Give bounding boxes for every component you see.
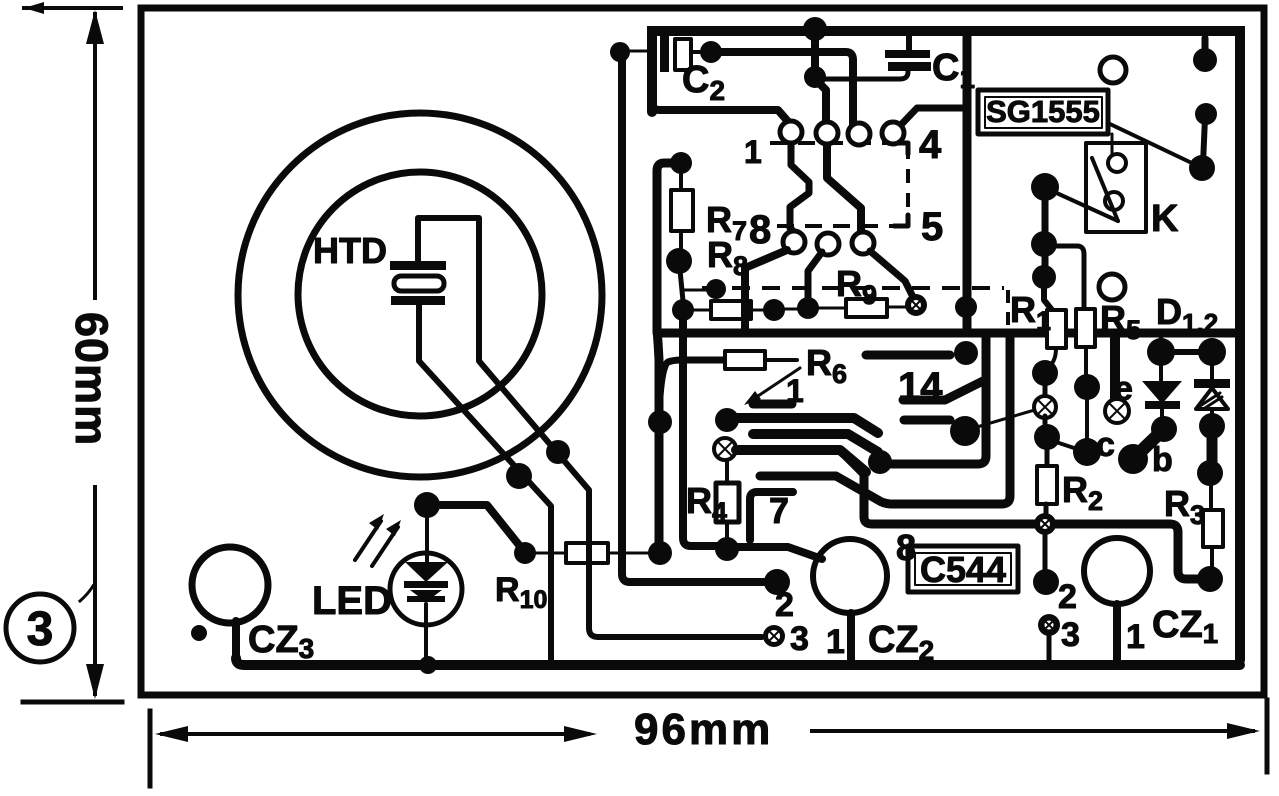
wire stub SG1555 box to contact [1111, 134, 1114, 153]
svg-text:3: 3 [790, 620, 809, 658]
resistor R1 body [1047, 310, 1066, 348]
comb finger pin1 short bar [753, 400, 792, 409]
relay contact hole bottom [1105, 192, 1123, 210]
svg-text:96mm: 96mm [634, 705, 773, 754]
junction dot transistor c [1073, 438, 1101, 466]
dashed box corner bracket bottom-right [894, 215, 908, 226]
junction dot R8 left [672, 299, 694, 321]
small slash tick on dimension line [80, 586, 93, 601]
wire R5 bottom link [1084, 347, 1088, 378]
comb right bar y400 with diagonal up [903, 381, 983, 400]
IC label box SG1555 [978, 90, 1108, 134]
junction dot R10 right [648, 541, 672, 565]
wire R3 top link [1209, 480, 1213, 510]
connector pad CZ2 [813, 539, 887, 613]
wire stub to dashed-line dot [684, 289, 707, 292]
dimension arrow 60mm lower (pointing down) [93, 487, 97, 694]
junction dot y462 [868, 450, 892, 474]
connector pad CZ1 [1084, 538, 1150, 604]
wire link R2-dot to c-dot [1053, 441, 1077, 449]
svg-text:K: K [1151, 198, 1179, 240]
svg-text:1: 1 [744, 134, 762, 170]
pin hole 4 [882, 122, 904, 144]
wire LED anode to R10 [427, 505, 523, 550]
svg-text:4: 4 [919, 123, 942, 167]
wire R3 bottom link [1210, 547, 1214, 570]
wire C2 left link [620, 50, 650, 53]
svg-text:3: 3 [27, 603, 54, 656]
junction dot below R7 [666, 248, 692, 274]
svg-text:1: 1 [1126, 618, 1145, 656]
relay contact hole top [1108, 154, 1126, 172]
piezo transducer HTD inner circle [298, 172, 542, 416]
pad transistor e with cross [1105, 399, 1129, 423]
junction dot D2 top [1198, 338, 1226, 366]
dimension tick bottom (left end of 96mm) [148, 711, 153, 786]
junction dot above R1 [1032, 265, 1056, 289]
svg-text:8: 8 [749, 208, 771, 252]
junction dot LED cathode on ground [419, 656, 437, 674]
IC SG1555 dashed outline bottom [772, 224, 906, 228]
wire pin 4 to right vertical [896, 108, 962, 130]
junction dot relay arm top [1195, 103, 1217, 125]
mounting hole top [1100, 57, 1126, 83]
wire bus to CZ2 [738, 547, 822, 559]
wire thick strap D2 down [1207, 426, 1218, 473]
wire vertical from C2-left dot down to pad 2 row [622, 60, 768, 582]
wire R2 bottom link [1044, 504, 1049, 516]
junction dot on top ring [803, 17, 827, 41]
wire to cross pad [1043, 380, 1048, 398]
junction dot left end of dashed line [706, 279, 726, 299]
wire HTD top lead to pad 3 [418, 218, 762, 637]
comb right bar y464 to x986 vertical [890, 338, 986, 464]
comb finger bar y434 [753, 434, 878, 452]
LED outline circle [390, 553, 462, 625]
HTD element disc [394, 276, 444, 291]
junction dot top of R7 column [670, 152, 692, 174]
junction dot LED anode trace [414, 492, 440, 518]
junction dot CZ1 pin 2 [1033, 569, 1059, 595]
HTD element top plate [390, 261, 446, 270]
junction dot D1 cathode [1151, 416, 1177, 442]
wire R8 right link [751, 309, 766, 312]
pad 3 with cross (CZ2 pin3) [763, 625, 785, 647]
wire R4 top link [725, 460, 729, 483]
resistor R2 body [1037, 466, 1057, 504]
diode D2 triangle outline [1196, 388, 1228, 409]
junction dot above R2 [1034, 424, 1060, 450]
junction dot transistor b [1118, 444, 1148, 474]
wire pin7 hole diagonal to R9 right [870, 251, 914, 299]
junction dot at R10 left [514, 542, 536, 564]
junction dot D2 cathode [1199, 413, 1225, 439]
diode D2 lower link [1210, 409, 1214, 419]
wire C1 bottom to junction [824, 71, 908, 79]
dimension tick bottom (right end of 96mm) [1265, 700, 1270, 772]
pad R4 top with cross [714, 438, 736, 460]
wire R6 right stub [765, 358, 797, 362]
wire HTD bottom lead to ground [419, 305, 551, 662]
junction dot on left vertical [648, 410, 672, 434]
wire R1 bottom link [1048, 348, 1056, 367]
LED emission arrow 1 [355, 521, 381, 560]
junction dot on x967 vertical [955, 296, 977, 318]
svg-text:8: 8 [896, 527, 916, 568]
wire R2 top link [1045, 444, 1050, 466]
wire coil vertical chain [1042, 187, 1049, 277]
svg-text:c: c [1096, 426, 1115, 464]
wire R10 right link [608, 552, 654, 555]
wire right vertical x967 from ring to R8 bus [963, 37, 972, 330]
comb right bar y420 [904, 416, 950, 425]
wire pad to dot [1043, 416, 1048, 430]
dimension tick bottom-left [23, 700, 122, 705]
wire R6 left elbow from vertical [659, 360, 725, 414]
junction dot on top lead [546, 440, 570, 464]
junction dot on bottom lead [506, 463, 532, 489]
junction dot above R3 [1197, 460, 1223, 486]
wire pin3 stub to ground [1047, 634, 1052, 660]
IC SG1555 dashed outline right [906, 145, 910, 224]
wire thin from K arm to coil dot [1050, 190, 1118, 221]
svg-text:14: 14 [898, 365, 943, 409]
dimension tick top-left [24, 6, 121, 10]
wire LED cathode [424, 604, 428, 660]
svg-text:60mm: 60mm [66, 312, 117, 446]
comb right bar y355 [866, 351, 950, 360]
wire loop from ring to pin 1 [652, 104, 791, 125]
capacitor C1 plate 2 [888, 62, 931, 71]
wire LED anode [425, 512, 429, 566]
wire pin 7 elbow [750, 492, 793, 540]
wire link to R9 [818, 307, 846, 310]
resistor R5 body [1076, 309, 1095, 347]
dimension line 96mm left segment [162, 732, 588, 736]
diode D2 cathode bar [1194, 379, 1230, 388]
junction dot relay arm bottom [1189, 155, 1215, 181]
svg-text:e: e [1114, 370, 1133, 408]
svg-text:2: 2 [1058, 578, 1077, 616]
wire bar between D1 and D2 dots [1161, 349, 1212, 355]
resistor R9 body [846, 299, 887, 317]
diode D1 lower link [1160, 409, 1164, 421]
junction dot D1 anode [1147, 338, 1175, 366]
pin hole 6 [817, 233, 839, 255]
wire zigzag pin1 to pin5 hole [790, 144, 809, 232]
wire R7 bottom link [679, 231, 683, 252]
wire down to c dot [1085, 394, 1089, 442]
diode D1 link [1159, 352, 1163, 381]
svg-text:b: b [1152, 441, 1173, 479]
junction dot coil top [1031, 173, 1059, 201]
wire pin5 hole diagonal to R8 column [745, 250, 787, 330]
wire zigzag pin2 to pin7 hole [827, 144, 861, 232]
comb finger bar y476 [760, 338, 1010, 504]
HTD element bottom plate [391, 296, 445, 305]
comb finger bar y450 from R4 pad [736, 450, 866, 472]
wire top supply ring (top and right side) [652, 31, 1240, 660]
wire branch e from bus y333 [1110, 338, 1120, 399]
junction pad with cross x1045 [1034, 396, 1056, 418]
resistor R7 body [671, 190, 693, 231]
diode D2 link [1210, 352, 1214, 380]
wire elbow to R5 [1050, 246, 1084, 309]
capacitor C2 plate 2 [675, 39, 691, 70]
junction dot below R5 [1074, 374, 1100, 400]
wire bus y525 from comb to R3 pad [842, 452, 1198, 579]
junction dot below R4 [715, 537, 739, 561]
dimension arrow 60mm upper (pointing up) [93, 14, 97, 298]
wire x742 vertical crossing R8 [741, 296, 749, 330]
capacitor C2 plate 1 [660, 36, 669, 72]
dimension line 96mm right segment [812, 729, 1253, 733]
IC label box C544 [908, 546, 1018, 592]
wire HTD lead crossing R10 body [586, 540, 592, 566]
capacitor C1 plate 1 [885, 50, 930, 58]
svg-text:LED: LED [312, 579, 392, 623]
dashed box corner bracket top-right [894, 143, 908, 154]
relay switch arm [1092, 158, 1118, 221]
wire pad to pin2 dot [1043, 532, 1048, 572]
svg-text:HTD: HTD [313, 230, 387, 271]
LED symbol bar [404, 581, 448, 588]
junction dot big y431 [950, 416, 980, 446]
wire CZ1 pin stub [1113, 604, 1121, 662]
wire left vertical continues to R10 junction [657, 330, 660, 553]
svg-text:7: 7 [769, 490, 789, 531]
wire elbow R7-column to left vertical [657, 163, 679, 330]
junction dot C2 left [610, 42, 630, 62]
svg-text:2: 2 [775, 586, 794, 624]
diode D1 triangle [1142, 381, 1182, 404]
junction dot below ring top right [1193, 48, 1217, 72]
junction dot mid chain [1031, 231, 1057, 257]
connector pad CZ3 [192, 547, 268, 623]
junction dot mid row [797, 297, 819, 319]
comb finger bar y418 [715, 408, 739, 432]
wire relay arm vertical [1203, 118, 1205, 164]
IC SG1555 dashed outline top [770, 141, 906, 145]
circled 3 figure number [6, 594, 74, 662]
junction dot C2 right [700, 41, 722, 63]
resistor R4 body [716, 483, 739, 522]
wire diagonal from SG1555 box to relay dot [1110, 124, 1196, 165]
junction dot below R1 [1032, 360, 1058, 386]
wire R9 right link [887, 306, 906, 309]
wire x683 vertical from R8-left to pin7 bus [683, 318, 722, 546]
wire link to R8 dot [680, 270, 683, 301]
LED symbol lower scribble [410, 590, 442, 602]
diode D1 cathode bar [1145, 401, 1180, 409]
mounting hole mid right [1099, 274, 1125, 300]
pin hole 2 [816, 122, 838, 144]
pad R9 right with cross [905, 294, 927, 316]
svg-text:1: 1 [826, 623, 845, 661]
svg-text:5: 5 [921, 205, 943, 249]
wire pin6 hole to R8 mid dot [808, 252, 822, 300]
thin link from big dot to junction x1045 [977, 409, 1038, 427]
board outline border [141, 8, 1264, 695]
wire D1 anode stub to bus [1158, 340, 1164, 352]
wire R7 top link [679, 172, 683, 190]
svg-text:SG1555: SG1555 [986, 94, 1100, 129]
wire R10 left link [533, 552, 566, 555]
wire C2 right link [691, 50, 703, 54]
wire link to mid dot [784, 308, 799, 311]
junction dot below R3 [1197, 566, 1223, 592]
capacitor C1 stub from ring [906, 36, 912, 50]
wire stub ring to dot [1202, 38, 1209, 52]
relay K outline [1086, 143, 1146, 232]
junction dot pad 2 (CZ2 pin2) [764, 569, 790, 595]
pin 1 marker dot of CZ3 [191, 625, 207, 641]
LED symbol triangle [405, 562, 448, 582]
wire pin 2 riser [818, 82, 826, 122]
wire CZ3 stub to ground [232, 621, 240, 660]
wire R1 top link [1044, 283, 1052, 310]
pin hole 7 [852, 232, 874, 254]
wire R8 left link [692, 309, 711, 312]
pin hole 1 [780, 121, 802, 143]
wire thick b strap [1133, 429, 1164, 459]
svg-text:C544: C544 [920, 549, 1006, 590]
junction dot R8 right [763, 299, 785, 321]
pad CZ1 pin 3 [1038, 614, 1060, 636]
pin hole 5 [783, 231, 805, 253]
wire bus y333 horizontal [657, 329, 1238, 338]
leader line from R6 to pin 1 bar [752, 368, 800, 400]
junction dot right of bar y355 [954, 341, 978, 365]
resistor R10 body [566, 543, 608, 563]
junction dot C1 branch [804, 66, 826, 88]
resistor R8 body [711, 301, 751, 319]
resistor R6 body [725, 351, 765, 369]
wire C2 to pin 3 riser [722, 52, 859, 131]
resistor R3 body [1203, 510, 1223, 547]
svg-text:3: 3 [1061, 616, 1080, 654]
wire R4 bottom link [725, 522, 729, 543]
pin hole 3 [848, 123, 870, 145]
wire dot to top ring [811, 36, 819, 70]
wire CZ2 pin stub [847, 613, 855, 662]
dashed corner down x1008 [1006, 290, 1010, 330]
piezo transducer HTD outer circle [238, 113, 602, 477]
dashed line y288 [702, 286, 1004, 290]
junction pad with cross on bus y525 [1034, 513, 1056, 535]
wire ground bus bottom [236, 658, 1240, 665]
LED emission arrow 2 [372, 527, 398, 566]
